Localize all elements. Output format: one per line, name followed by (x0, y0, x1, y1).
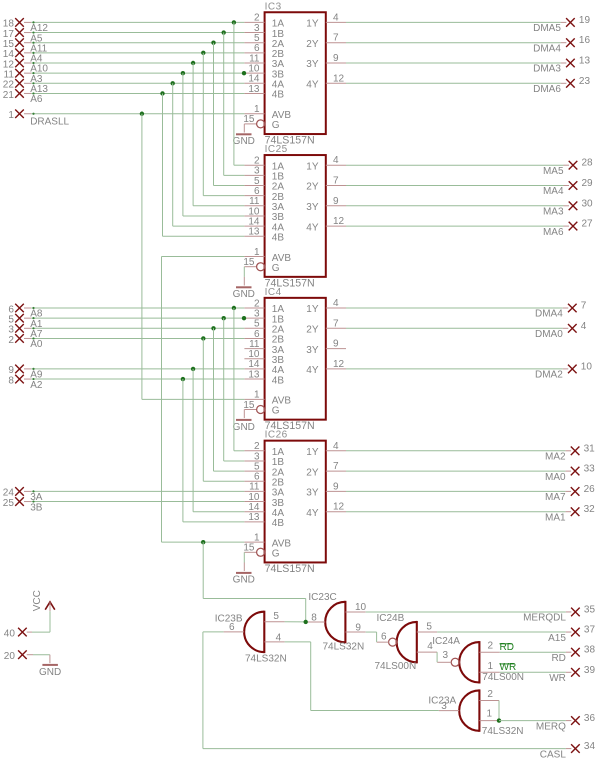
svg-text:4: 4 (333, 12, 339, 23)
svg-text:2Y: 2Y (306, 39, 319, 50)
svg-text:2: 2 (8, 335, 14, 346)
svg-text:9: 9 (333, 339, 339, 350)
wire net A1 (24, 317, 244, 319)
wire net MERQ to IC23A.1 and IC23A.2 (497, 701, 501, 723)
svg-text:4B: 4B (272, 518, 285, 529)
ground symbol GND at IC3 pin 15 (233, 124, 255, 147)
IC IC3 74LS157N multiplexer (243, 1, 346, 146)
connector pin 12 net A10 (3, 59, 49, 75)
wire IC23C.9 to IC24B.6 (366, 632, 377, 642)
connector pin 37 net A15 (437, 625, 595, 644)
svg-text:15: 15 (243, 543, 255, 554)
svg-text:3Y: 3Y (306, 202, 319, 213)
wire net 3B to IC26 (24, 500, 244, 502)
svg-text:13: 13 (248, 84, 260, 95)
connector pin 2 net A0 (8, 334, 43, 350)
connector pin 28 net MA5 (346, 158, 593, 177)
svg-text:36: 36 (584, 713, 596, 724)
svg-text:33: 33 (584, 464, 596, 475)
connector pin 9 net A9 (8, 365, 43, 381)
ground symbol GND at pin 20 (39, 655, 61, 678)
NAND gate IC24B 74LS00N (375, 613, 438, 672)
svg-text:4: 4 (333, 441, 339, 452)
svg-text:4: 4 (333, 155, 339, 166)
connector pin 11 net A3 (4, 69, 43, 85)
connector pin 5 net A1 (8, 314, 43, 330)
connector pin 25 net 3B (3, 497, 43, 513)
svg-text:MA3: MA3 (543, 207, 564, 218)
connector pin 30 net MA3 (346, 198, 593, 217)
svg-text:8: 8 (8, 375, 14, 386)
svg-text:13: 13 (248, 512, 260, 523)
NAND gate IC24A 74LS00N (432, 636, 524, 684)
IC IC25 74LS157N multiplexer (243, 144, 346, 289)
svg-text:6: 6 (229, 622, 235, 633)
connector pin 35 net MERQDL (366, 604, 596, 623)
connector pin 7 net DMA4 (346, 301, 587, 320)
connector pin 1 net DRASLL (8, 109, 69, 127)
OR gate IC23B 74LS32N (215, 611, 287, 665)
svg-text:MA2: MA2 (545, 452, 566, 463)
svg-text:74LS32N: 74LS32N (482, 726, 524, 737)
svg-text:MA6: MA6 (543, 227, 564, 238)
svg-text:IC3: IC3 (265, 1, 282, 12)
supply symbol VCC (32, 590, 55, 611)
svg-text:1Y: 1Y (306, 447, 319, 458)
connector pin 33 net MA0 (346, 464, 595, 483)
svg-text:A2: A2 (30, 380, 43, 391)
junction dot on net A1 at IC4 pin 3 (242, 316, 246, 320)
svg-text:MERQ: MERQ (536, 721, 566, 732)
ground symbol GND at IC4 pin 15 (233, 410, 255, 433)
svg-text:G: G (272, 263, 280, 274)
connector pin 34 net CASL (540, 741, 596, 760)
svg-text:37: 37 (584, 625, 596, 636)
svg-text:13: 13 (248, 369, 260, 380)
svg-text:38: 38 (584, 645, 596, 656)
net label RD (active low) (500, 642, 514, 653)
svg-text:12: 12 (333, 502, 345, 513)
svg-text:A0: A0 (30, 339, 43, 350)
svg-text:MA1: MA1 (545, 512, 566, 523)
svg-text:1: 1 (8, 110, 14, 121)
svg-text:74LS32N: 74LS32N (323, 642, 365, 653)
svg-text:A6: A6 (30, 94, 43, 105)
IC IC4 74LS157N multiplexer (243, 287, 346, 432)
junction and branch of net A9 to IC26 (191, 367, 244, 512)
svg-text:1Y: 1Y (306, 304, 319, 315)
svg-text:IC24B: IC24B (377, 613, 405, 624)
svg-text:7: 7 (333, 176, 339, 187)
net label WR (active low) (500, 662, 517, 673)
connector pin 13 net DMA3 (346, 56, 590, 75)
svg-text:32: 32 (584, 504, 596, 515)
svg-text:4B: 4B (272, 232, 285, 243)
svg-text:4Y: 4Y (306, 80, 319, 91)
svg-text:4: 4 (581, 321, 587, 332)
svg-text:12: 12 (333, 73, 345, 84)
svg-text:74LS00N: 74LS00N (482, 672, 524, 683)
svg-text:4: 4 (333, 298, 339, 309)
svg-text:31: 31 (584, 443, 596, 454)
wire net A2 (24, 378, 244, 380)
svg-text:12: 12 (333, 216, 345, 227)
connector pin 26 net MA7 (346, 484, 595, 503)
wire IC24B.4 to IC24A.3 (436, 652, 438, 662)
ground symbol GND at IC26 pin 15 (233, 552, 255, 585)
svg-text:9: 9 (333, 53, 339, 64)
svg-text:G: G (272, 120, 280, 131)
svg-text:25: 25 (3, 498, 15, 509)
svg-text:DMA4: DMA4 (533, 43, 561, 54)
svg-text:3Y: 3Y (306, 59, 319, 70)
svg-text:DMA0: DMA0 (535, 329, 563, 340)
wire net 3A to IC26 (24, 490, 244, 492)
connector pin 31 net MA2 (346, 443, 595, 462)
connector pin 32 net MA1 (346, 504, 595, 523)
svg-text:40: 40 (4, 628, 16, 639)
junction and branch of net A10 to IC25 (191, 61, 244, 206)
wire IC23B.4 to IC23A.3 (285, 642, 439, 711)
svg-text:1: 1 (254, 247, 260, 258)
connector pin 4 net DMA0 (346, 321, 587, 340)
wire net A13 (24, 82, 244, 84)
svg-text:23: 23 (579, 76, 591, 87)
svg-text:1: 1 (254, 104, 260, 115)
svg-text:34: 34 (584, 741, 596, 752)
svg-text:13: 13 (579, 56, 591, 67)
connector pin 16 net DMA4 (346, 35, 590, 54)
connector pin 22 net A13 (3, 79, 49, 95)
svg-text:7: 7 (581, 301, 587, 312)
connector pin 3 net A7 (8, 324, 43, 340)
svg-text:1Y: 1Y (306, 161, 319, 172)
junction and branch of net A12 to IC25 (232, 20, 245, 165)
wire net G-enable from IC23C output to IC25 AVB and IC26 AVB (162, 257, 306, 622)
connector pin 8 net A2 (8, 375, 43, 391)
junction dot on net A3 at IC3 pin 10 (242, 71, 246, 75)
svg-text:MA4: MA4 (543, 186, 564, 197)
svg-text:IC24A: IC24A (432, 636, 460, 647)
connector pin 39 net WR (500, 665, 596, 684)
svg-text:DMA3: DMA3 (533, 64, 561, 75)
wire net VCC (27, 611, 50, 632)
connector pin 20 net GND (4, 650, 27, 662)
svg-text:4B: 4B (272, 375, 285, 386)
svg-text:13: 13 (248, 227, 260, 238)
svg-text:WR: WR (549, 673, 566, 684)
svg-text:3: 3 (442, 650, 448, 661)
wire IC23B.5 to IC23C.8 (285, 620, 308, 624)
svg-text:21: 21 (3, 90, 15, 101)
wire net CASL from IC23B.6 (203, 632, 566, 749)
connector pin 38 net RD (500, 645, 596, 664)
svg-text:DMA2: DMA2 (535, 370, 563, 381)
svg-text:15: 15 (243, 400, 255, 411)
svg-text:12: 12 (333, 359, 345, 370)
svg-text:4Y: 4Y (306, 222, 319, 233)
junction and branch of net A2 to IC26 (181, 377, 245, 522)
junction and branch of net A8 to IC26 (232, 306, 245, 451)
svg-text:39: 39 (584, 665, 596, 676)
svg-text:IC25: IC25 (265, 144, 288, 155)
svg-text:MERQDL: MERQDL (523, 613, 566, 624)
svg-text:9: 9 (333, 481, 339, 492)
junction and branch of net A3 to IC25 (181, 71, 245, 216)
svg-text:1Y: 1Y (306, 19, 319, 30)
wire net A7 (24, 327, 244, 329)
svg-text:7: 7 (333, 33, 339, 44)
wire net A5 (24, 31, 244, 33)
junction and branch of net A11 to IC25 (211, 41, 244, 186)
svg-text:2Y: 2Y (306, 182, 319, 193)
wire net GND (27, 654, 50, 656)
svg-text:7: 7 (333, 318, 339, 329)
svg-text:29: 29 (582, 178, 594, 189)
svg-text:GND: GND (233, 289, 255, 300)
svg-text:4Y: 4Y (306, 365, 319, 376)
svg-text:3Y: 3Y (306, 345, 319, 356)
svg-text:DMA5: DMA5 (533, 23, 561, 34)
svg-text:MA7: MA7 (545, 492, 566, 503)
svg-text:MA0: MA0 (545, 472, 566, 483)
connector pin 6 net A8 (8, 304, 43, 320)
svg-text:2Y: 2Y (306, 467, 319, 478)
wire net A6 (24, 92, 244, 94)
svg-text:2: 2 (488, 641, 494, 652)
svg-text:2Y: 2Y (306, 325, 319, 336)
connector pin 40 net VCC (4, 628, 27, 640)
svg-text:GND: GND (233, 575, 255, 586)
svg-text:9: 9 (333, 196, 339, 207)
junction and branch of net A6 to IC25 (160, 91, 244, 236)
svg-text:28: 28 (582, 158, 594, 169)
svg-text:10: 10 (581, 361, 593, 372)
svg-text:19: 19 (579, 15, 591, 26)
svg-text:IC23C: IC23C (308, 592, 336, 603)
OR gate IC23A 74LS32N (428, 689, 523, 737)
svg-text:74LS32N: 74LS32N (245, 654, 287, 665)
svg-text:DRASLL: DRASLL (30, 116, 69, 127)
junction and branch of net A13 to IC25 (171, 81, 245, 226)
connector pin 17 net A5 (3, 28, 43, 44)
svg-text:15: 15 (243, 114, 255, 125)
svg-text:VCC: VCC (32, 590, 43, 611)
connector pin 21 net A6 (3, 89, 43, 105)
svg-text:7: 7 (333, 461, 339, 472)
connector pin 15 net A11 (3, 38, 48, 54)
wire net A4 (24, 52, 244, 54)
svg-text:DMA4: DMA4 (535, 309, 563, 320)
svg-text:G: G (272, 549, 280, 560)
connector pin 29 net MA4 (346, 178, 593, 197)
connector pin 24 net 3A (3, 487, 43, 503)
svg-text:20: 20 (4, 651, 16, 662)
OR gate IC23C 74LS32N (306, 592, 367, 653)
connector pin 27 net MA6 (346, 219, 593, 238)
svg-text:2: 2 (487, 689, 493, 700)
junction and branch of net A5 to IC25 (222, 30, 245, 175)
svg-text:5: 5 (273, 611, 279, 622)
svg-text:26: 26 (584, 484, 596, 495)
connector pin 23 net DMA6 (346, 76, 590, 95)
svg-text:4Y: 4Y (306, 508, 319, 519)
svg-text:6: 6 (381, 632, 387, 643)
svg-text:1: 1 (487, 709, 493, 720)
svg-text:GND: GND (39, 667, 61, 678)
svg-text:DMA6: DMA6 (533, 84, 561, 95)
svg-text:MA5: MA5 (543, 166, 564, 177)
connector pin 36 net MERQ (499, 713, 595, 732)
svg-text:IC26: IC26 (265, 430, 288, 441)
junction and branch of net A4 to IC25 (201, 51, 244, 196)
svg-text:30: 30 (582, 198, 594, 209)
ground symbol GND at IC25 pin 15 (233, 267, 255, 300)
svg-text:3Y: 3Y (306, 488, 319, 499)
wire net A12 (24, 21, 244, 23)
svg-text:5: 5 (426, 621, 432, 632)
junction and branch of net A7 to IC26 (211, 326, 244, 471)
wire net A0 (24, 337, 244, 339)
connector pin 19 net DMA5 (346, 15, 590, 34)
svg-text:16: 16 (579, 35, 591, 46)
svg-text:IC4: IC4 (265, 287, 282, 298)
svg-text:1: 1 (488, 661, 494, 672)
wire net A9 (24, 368, 244, 370)
svg-text:74LS157N: 74LS157N (265, 563, 315, 575)
junction and branch of net A1 to IC26 (222, 316, 245, 461)
svg-text:10: 10 (355, 602, 367, 613)
connector pin 10 net DMA2 (346, 361, 592, 380)
svg-text:74LS00N: 74LS00N (375, 661, 417, 672)
IC IC26 74LS157N multiplexer (243, 430, 346, 575)
svg-text:4B: 4B (272, 90, 285, 101)
svg-text:1: 1 (254, 532, 260, 543)
wire net A8 (24, 307, 244, 309)
svg-text:GND: GND (233, 422, 255, 433)
svg-text:RD: RD (551, 653, 565, 664)
wire net A11 (24, 42, 244, 44)
svg-text:27: 27 (582, 219, 594, 230)
svg-text:GND: GND (233, 136, 255, 147)
connector pin 18 net A12 (3, 18, 49, 34)
svg-text:15: 15 (243, 257, 255, 268)
svg-text:G: G (272, 406, 280, 417)
connector pin 14 net A4 (3, 49, 43, 65)
svg-text:3B: 3B (30, 502, 43, 513)
wire net DRASLL to IC3 AVB and IC4 AVB (24, 112, 244, 400)
junction and branch of net A0 to IC26 (201, 336, 244, 481)
svg-text:1: 1 (254, 390, 260, 401)
wire net A3 (24, 72, 244, 74)
svg-text:CASL: CASL (540, 749, 567, 760)
svg-text:35: 35 (584, 604, 596, 615)
svg-text:A15: A15 (548, 633, 566, 644)
wire net A10 (24, 62, 244, 64)
